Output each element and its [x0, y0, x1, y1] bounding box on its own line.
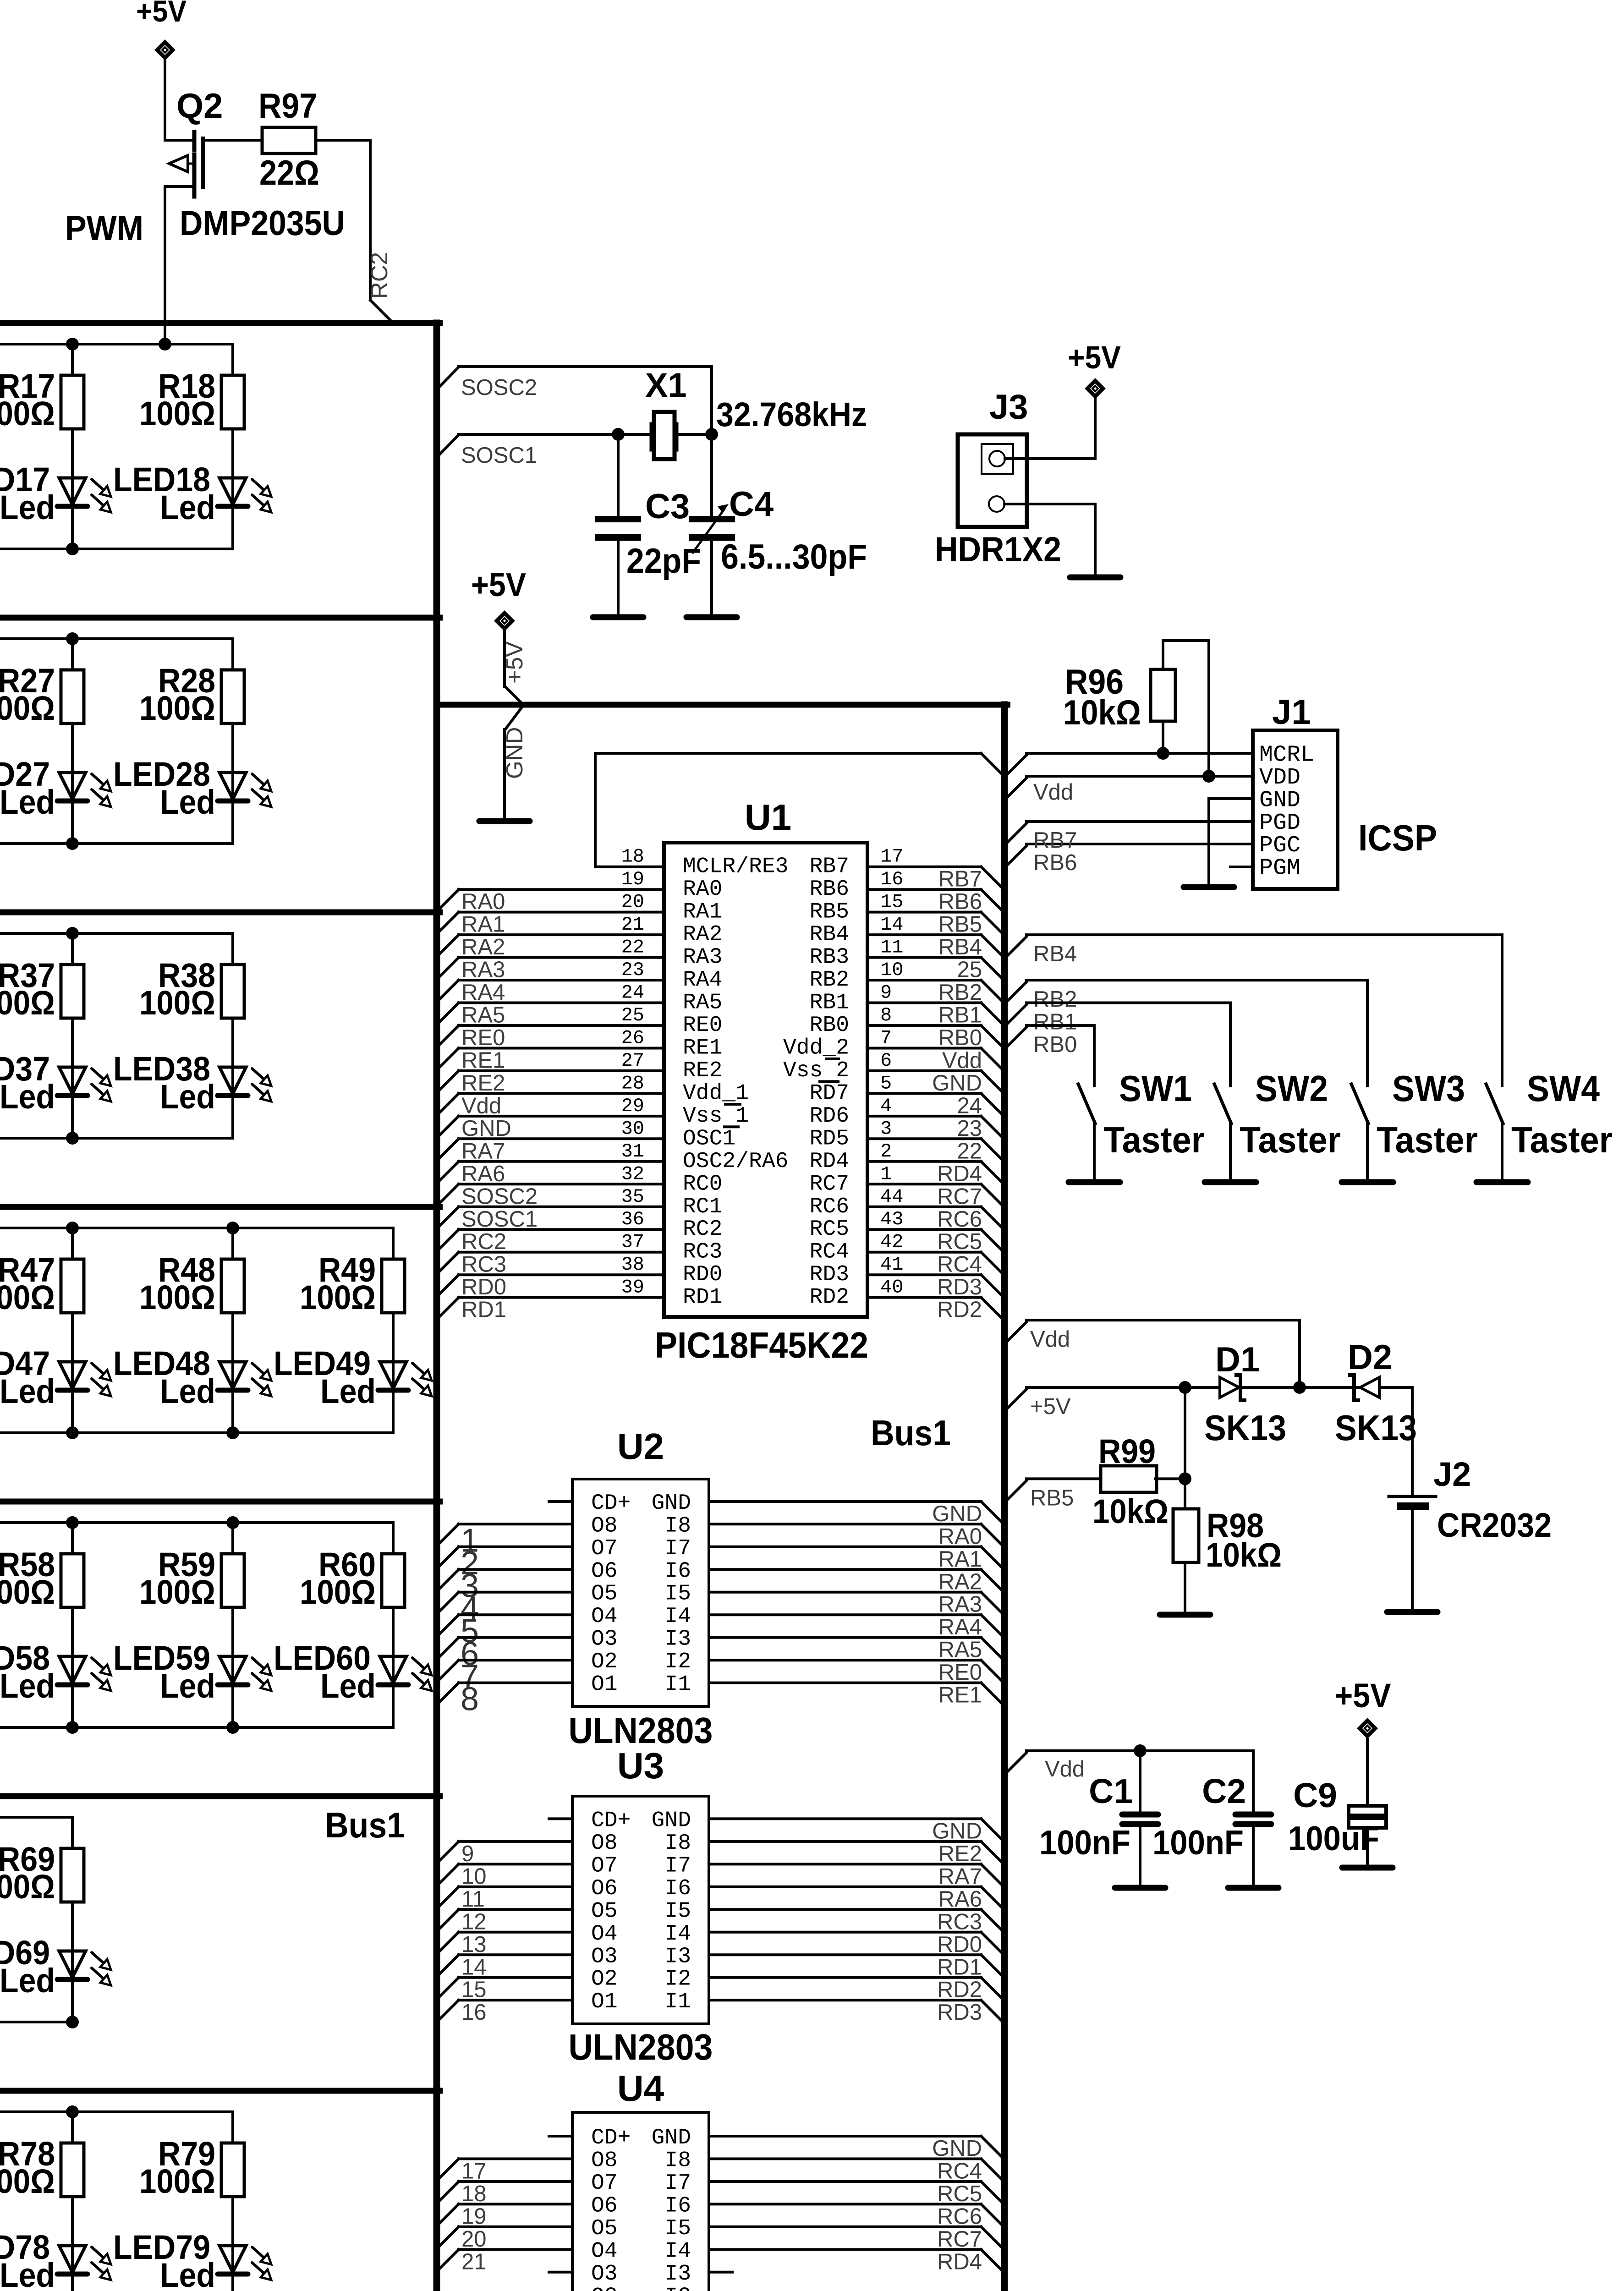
svg-text:RC7: RC7 [937, 1184, 982, 1209]
svg-text:Vss 2: Vss 2 [783, 1058, 849, 1083]
svg-text:GND: GND [461, 1116, 511, 1141]
svg-text:C4: C4 [729, 485, 774, 524]
svg-text:RC2: RC2 [366, 252, 392, 299]
svg-text:23: 23 [621, 959, 644, 981]
svg-text:20: 20 [461, 2227, 487, 2252]
svg-text:RB3: RB3 [810, 945, 849, 970]
svg-text:RE2: RE2 [461, 1071, 505, 1096]
svg-text:RC6: RC6 [937, 1207, 982, 1232]
svg-text:21: 21 [461, 2249, 487, 2274]
svg-text:GND: GND [501, 727, 527, 779]
svg-text:RA0: RA0 [683, 877, 722, 902]
svg-text:36: 36 [621, 1208, 644, 1230]
svg-text:9: 9 [880, 982, 892, 1004]
svg-text:+5V: +5V [471, 567, 526, 603]
svg-text:RB1: RB1 [1033, 1010, 1077, 1035]
svg-text:SW3: SW3 [1392, 1068, 1465, 1109]
svg-text:RC5: RC5 [937, 2181, 982, 2206]
svg-text:RB6: RB6 [810, 877, 849, 902]
svg-text:OSC1: OSC1 [683, 1126, 735, 1151]
svg-text:44: 44 [880, 1186, 903, 1208]
svg-text:I4: I4 [664, 1604, 691, 1629]
svg-text:RD2: RD2 [810, 1285, 849, 1310]
svg-text:4: 4 [880, 1095, 892, 1117]
svg-text:I2: I2 [664, 2284, 691, 2291]
svg-text:U2: U2 [617, 1426, 664, 1467]
svg-text:RD5: RD5 [810, 1126, 849, 1151]
svg-text:RD7: RD7 [810, 1081, 849, 1106]
svg-text:CR2032: CR2032 [1437, 1506, 1552, 1544]
svg-text:31: 31 [621, 1140, 644, 1162]
svg-text:I8: I8 [664, 1513, 691, 1538]
svg-text:RA5: RA5 [461, 1003, 505, 1028]
svg-text:GND: GND [932, 2136, 982, 2161]
svg-text:Led: Led [160, 1667, 215, 1705]
svg-text:100nF: 100nF [1039, 1823, 1130, 1862]
svg-text:RA2: RA2 [683, 922, 722, 947]
svg-text:100Ω: 100Ω [300, 1573, 376, 1611]
svg-text:R99: R99 [1098, 1432, 1156, 1470]
svg-text:RB2: RB2 [810, 968, 849, 992]
svg-text:11: 11 [461, 1887, 485, 1912]
svg-text:RE0: RE0 [461, 1025, 505, 1050]
svg-text:O6: O6 [591, 1876, 618, 1901]
svg-text:RB7: RB7 [938, 867, 982, 892]
svg-text:I2: I2 [664, 1967, 691, 1992]
svg-text:RC3: RC3 [937, 1909, 982, 1934]
svg-text:10kΩ: 10kΩ [1092, 1492, 1169, 1530]
svg-text:O4: O4 [591, 1922, 618, 1946]
svg-text:RA0: RA0 [938, 1524, 982, 1549]
svg-text:SW2: SW2 [1255, 1068, 1328, 1109]
svg-text:11: 11 [880, 937, 903, 959]
svg-text:DMP2035U: DMP2035U [180, 204, 345, 243]
svg-text:16: 16 [880, 868, 903, 890]
svg-text:C3: C3 [645, 487, 690, 526]
svg-text:22: 22 [621, 937, 644, 959]
svg-text:RA6: RA6 [938, 1887, 982, 1912]
svg-text:R97: R97 [258, 87, 317, 126]
svg-text:Led: Led [320, 1372, 376, 1410]
svg-text:RD1: RD1 [461, 1298, 506, 1322]
svg-text:Vdd: Vdd [1045, 1757, 1085, 1781]
svg-text:PWM: PWM [65, 209, 143, 248]
svg-text:7: 7 [880, 1027, 892, 1049]
svg-text:+5V: +5V [501, 641, 527, 684]
svg-text:Led: Led [160, 1078, 215, 1116]
svg-text:O7: O7 [591, 1853, 618, 1878]
svg-text:RA3: RA3 [461, 958, 505, 982]
svg-text:SW1: SW1 [1119, 1068, 1192, 1109]
svg-text:25: 25 [621, 1004, 644, 1026]
svg-text:Led: Led [160, 2256, 215, 2291]
svg-text:I3: I3 [664, 1627, 691, 1652]
svg-text:RB1: RB1 [938, 1003, 982, 1028]
svg-text:RA4: RA4 [683, 968, 722, 992]
svg-text:RA5: RA5 [938, 1638, 982, 1662]
svg-text:Vdd: Vdd [1033, 780, 1073, 805]
svg-text:RA1: RA1 [683, 900, 722, 925]
svg-text:Vdd: Vdd [942, 1048, 982, 1073]
svg-text:21: 21 [621, 914, 644, 936]
svg-text:100Ω: 100Ω [0, 2162, 55, 2200]
svg-text:RE1: RE1 [461, 1048, 505, 1073]
svg-text:O6: O6 [591, 2193, 618, 2218]
svg-text:ULN2803: ULN2803 [569, 2027, 713, 2067]
svg-text:23: 23 [957, 1116, 982, 1141]
svg-text:C9: C9 [1293, 1776, 1337, 1814]
svg-text:Led: Led [0, 1372, 55, 1410]
svg-text:D2: D2 [1348, 1338, 1392, 1377]
svg-text:100Ω: 100Ω [300, 1278, 376, 1316]
svg-text:19: 19 [621, 868, 644, 890]
svg-text:GND: GND [1259, 787, 1300, 813]
svg-text:RA0: RA0 [461, 889, 505, 914]
svg-text:O2: O2 [591, 2284, 618, 2291]
svg-text:I7: I7 [664, 1536, 691, 1561]
svg-text:O1: O1 [591, 1990, 618, 2014]
svg-text:J2: J2 [1433, 1455, 1471, 1493]
svg-text:I8: I8 [664, 2148, 691, 2173]
svg-text:RD1: RD1 [683, 1285, 722, 1310]
svg-text:SK13: SK13 [1204, 1408, 1286, 1448]
svg-text:I7: I7 [664, 2171, 691, 2196]
svg-text:RD3: RD3 [937, 1275, 982, 1299]
svg-text:VDD: VDD [1259, 765, 1300, 791]
svg-text:RA3: RA3 [938, 1592, 982, 1617]
svg-text:+5V: +5V [136, 0, 187, 28]
svg-text:Led: Led [320, 1667, 376, 1705]
svg-text:Vdd_1: Vdd_1 [683, 1081, 749, 1106]
svg-text:29: 29 [621, 1095, 644, 1117]
svg-text:SOSC2: SOSC2 [461, 1184, 538, 1209]
svg-text:RD0: RD0 [461, 1275, 506, 1299]
svg-text:10: 10 [880, 959, 903, 981]
svg-text:RC3: RC3 [461, 1252, 506, 1277]
svg-text:30: 30 [621, 1118, 644, 1140]
svg-text:I6: I6 [664, 1559, 691, 1584]
svg-text:+5V: +5V [1030, 1394, 1071, 1419]
svg-text:RB4: RB4 [810, 922, 849, 947]
svg-text:RB4: RB4 [1033, 942, 1077, 966]
svg-text:I7: I7 [664, 1853, 691, 1878]
svg-text:Led: Led [0, 2256, 55, 2291]
svg-text:I3: I3 [664, 2262, 691, 2286]
svg-text:Led: Led [0, 488, 55, 526]
svg-text:RC2: RC2 [461, 1229, 506, 1254]
svg-text:RA7: RA7 [461, 1139, 505, 1163]
svg-text:RB5: RB5 [1030, 1485, 1074, 1510]
svg-text:RB6: RB6 [1033, 850, 1077, 875]
svg-text:RC2: RC2 [683, 1217, 722, 1242]
svg-text:RB0: RB0 [1033, 1032, 1077, 1057]
svg-text:I2: I2 [664, 1650, 691, 1674]
svg-text:I4: I4 [664, 1922, 691, 1946]
svg-text:32: 32 [621, 1163, 644, 1185]
svg-text:Taster: Taster [1511, 1119, 1613, 1160]
svg-text:C1: C1 [1089, 1772, 1133, 1810]
svg-text:RB7: RB7 [1033, 828, 1077, 853]
svg-text:O8: O8 [591, 2148, 618, 2173]
svg-text:O8: O8 [591, 1831, 618, 1856]
svg-text:RB0: RB0 [810, 1013, 849, 1038]
svg-text:RD2: RD2 [937, 1978, 982, 2002]
svg-text:O6: O6 [591, 1559, 618, 1584]
svg-text:RD6: RD6 [810, 1104, 849, 1129]
svg-text:I5: I5 [664, 2216, 691, 2241]
svg-text:RA1: RA1 [938, 1547, 982, 1572]
svg-text:GND: GND [932, 1819, 982, 1843]
svg-text:RB1: RB1 [810, 991, 849, 1015]
svg-text:O1: O1 [591, 1672, 618, 1697]
svg-text:RD0: RD0 [937, 1932, 982, 1957]
svg-text:Vss 1: Vss 1 [683, 1104, 749, 1129]
svg-text:O8: O8 [591, 1513, 618, 1538]
svg-text:O7: O7 [591, 2171, 618, 2196]
svg-text:14: 14 [461, 1955, 487, 1979]
svg-text:RD4: RD4 [937, 1162, 982, 1186]
svg-text:RD1: RD1 [937, 1955, 982, 1979]
svg-text:18: 18 [461, 2181, 487, 2206]
svg-text:100Ω: 100Ω [0, 1868, 55, 1906]
svg-text:O5: O5 [591, 1899, 618, 1924]
svg-text:RC1: RC1 [683, 1195, 722, 1219]
svg-text:100Ω: 100Ω [139, 984, 215, 1022]
svg-text:10: 10 [461, 1864, 487, 1889]
svg-text:19: 19 [461, 2204, 487, 2229]
svg-text:Vdd_2: Vdd_2 [783, 1036, 849, 1061]
svg-text:RB2: RB2 [1033, 987, 1077, 1012]
svg-text:Taster: Taster [1377, 1119, 1478, 1160]
svg-text:Bus1: Bus1 [325, 1805, 405, 1845]
svg-text:Q2: Q2 [176, 87, 223, 126]
svg-text:PGM: PGM [1259, 855, 1300, 882]
svg-text:RA7: RA7 [938, 1864, 982, 1889]
svg-text:I4: I4 [664, 2239, 691, 2264]
svg-text:8: 8 [880, 1004, 892, 1026]
svg-text:Led: Led [0, 1078, 55, 1116]
svg-text:RE1: RE1 [683, 1036, 722, 1061]
svg-text:I5: I5 [664, 1899, 691, 1924]
svg-text:RD4: RD4 [937, 2249, 982, 2274]
svg-text:GND: GND [652, 2126, 691, 2150]
svg-text:O7: O7 [591, 1536, 618, 1561]
svg-text:RE2: RE2 [938, 1842, 982, 1866]
svg-text:ULN2803: ULN2803 [569, 1710, 713, 1751]
svg-text:SOSC1: SOSC1 [461, 443, 537, 468]
svg-text:100Ω: 100Ω [0, 395, 55, 433]
svg-text:I3: I3 [664, 1944, 691, 1969]
svg-text:Vdd: Vdd [1030, 1327, 1070, 1352]
svg-text:24: 24 [957, 1093, 982, 1118]
svg-text:13: 13 [461, 1932, 487, 1957]
svg-text:41: 41 [880, 1254, 903, 1276]
svg-text:RE0: RE0 [683, 1013, 722, 1038]
svg-text:U4: U4 [617, 2068, 664, 2109]
svg-text:Led: Led [160, 1372, 215, 1410]
svg-text:U1: U1 [745, 797, 791, 838]
svg-text:RC4: RC4 [937, 2159, 982, 2184]
svg-text:RA2: RA2 [461, 935, 505, 959]
svg-text:O2: O2 [591, 1650, 618, 1674]
svg-text:RE2: RE2 [683, 1058, 722, 1083]
svg-text:18: 18 [621, 846, 644, 868]
svg-text:2: 2 [880, 1140, 892, 1162]
svg-text:CD+: CD+ [591, 1808, 631, 1833]
svg-text:SW4: SW4 [1527, 1068, 1600, 1109]
svg-text:RB5: RB5 [810, 900, 849, 925]
svg-text:RB0: RB0 [938, 1025, 982, 1050]
svg-text:RA5: RA5 [683, 991, 722, 1015]
svg-text:10kΩ: 10kΩ [1063, 693, 1141, 732]
svg-text:Taster: Taster [1240, 1119, 1341, 1160]
svg-text:15: 15 [880, 891, 903, 913]
svg-text:SOSC1: SOSC1 [461, 1207, 538, 1232]
svg-text:12: 12 [461, 1909, 487, 1934]
svg-text:14: 14 [880, 914, 903, 936]
svg-text:I1: I1 [664, 1672, 691, 1697]
svg-text:SK13: SK13 [1335, 1408, 1417, 1448]
svg-text:26: 26 [621, 1027, 644, 1049]
svg-text:U3: U3 [617, 1745, 664, 1786]
svg-text:RC6: RC6 [810, 1195, 849, 1219]
svg-text:9: 9 [461, 1842, 474, 1866]
svg-text:3: 3 [880, 1118, 892, 1140]
svg-text:100uF: 100uF [1288, 1819, 1379, 1858]
svg-text:39: 39 [621, 1277, 644, 1299]
svg-text:PIC18F45K22: PIC18F45K22 [655, 1325, 868, 1365]
svg-text:22pF: 22pF [626, 542, 701, 581]
svg-text:Taster: Taster [1103, 1119, 1205, 1160]
svg-text:15: 15 [461, 1978, 487, 2002]
svg-text:SOSC2: SOSC2 [461, 375, 537, 400]
svg-text:Led: Led [160, 488, 215, 526]
svg-text:24: 24 [621, 982, 644, 1004]
svg-text:RC7: RC7 [810, 1172, 849, 1196]
svg-text:20: 20 [621, 891, 644, 913]
svg-text:C2: C2 [1202, 1772, 1246, 1810]
svg-text:Led: Led [0, 1667, 55, 1705]
svg-text:RE0: RE0 [938, 1660, 982, 1685]
svg-text:O5: O5 [591, 2216, 618, 2241]
svg-text:Led: Led [160, 783, 215, 821]
svg-text:RB6: RB6 [938, 889, 982, 914]
svg-text:RC3: RC3 [683, 1240, 722, 1265]
svg-text:17: 17 [461, 2159, 487, 2184]
svg-text:RC5: RC5 [810, 1217, 849, 1242]
svg-text:RB7: RB7 [810, 855, 849, 879]
svg-text:HDR1X2: HDR1X2 [935, 530, 1061, 569]
svg-text:RD2: RD2 [937, 1298, 982, 1322]
svg-text:40: 40 [880, 1277, 903, 1299]
svg-text:6: 6 [880, 1050, 892, 1072]
svg-text:RD4: RD4 [810, 1149, 849, 1174]
svg-text:35: 35 [621, 1186, 644, 1208]
svg-text:+5V: +5V [1335, 1677, 1391, 1715]
svg-text:100Ω: 100Ω [139, 1278, 215, 1316]
svg-text:1: 1 [880, 1163, 892, 1185]
svg-text:O3: O3 [591, 1944, 618, 1969]
svg-text:8: 8 [461, 1681, 479, 1718]
svg-text:100Ω: 100Ω [139, 1573, 215, 1611]
svg-text:100Ω: 100Ω [0, 689, 55, 727]
svg-text:ICSP: ICSP [1358, 817, 1437, 858]
svg-text:RB2: RB2 [938, 980, 982, 1005]
svg-text:O3: O3 [591, 2262, 618, 2286]
svg-text:RC7: RC7 [937, 2227, 982, 2252]
svg-text:Vdd: Vdd [461, 1093, 501, 1118]
svg-text:RA3: RA3 [683, 945, 722, 970]
svg-text:RA4: RA4 [461, 980, 505, 1005]
svg-text:RD0: RD0 [683, 1262, 722, 1287]
svg-text:OSC2/RA6: OSC2/RA6 [683, 1149, 788, 1174]
svg-text:100Ω: 100Ω [139, 395, 215, 433]
svg-text:RE1: RE1 [938, 1683, 982, 1708]
svg-text:I5: I5 [664, 1582, 691, 1606]
svg-text:Bus1: Bus1 [871, 1413, 951, 1453]
svg-text:10kΩ: 10kΩ [1206, 1536, 1282, 1574]
svg-text:CD+: CD+ [591, 1491, 631, 1516]
svg-text:100Ω: 100Ω [0, 1573, 55, 1611]
svg-text:RC4: RC4 [810, 1240, 849, 1265]
svg-text:RB5: RB5 [938, 912, 982, 937]
svg-text:100Ω: 100Ω [139, 689, 215, 727]
svg-text:100Ω: 100Ω [0, 984, 55, 1022]
svg-text:RA4: RA4 [938, 1615, 982, 1639]
svg-text:17: 17 [880, 846, 903, 868]
svg-text:28: 28 [621, 1072, 644, 1094]
svg-text:6.5...30pF: 6.5...30pF [721, 537, 867, 576]
svg-text:RD3: RD3 [937, 2000, 982, 2025]
svg-text:O4: O4 [591, 2239, 618, 2264]
svg-text:RC4: RC4 [937, 1252, 982, 1277]
svg-text:16: 16 [461, 2000, 487, 2025]
svg-text:RC5: RC5 [937, 1229, 982, 1254]
svg-text:27: 27 [621, 1050, 644, 1072]
svg-text:100Ω: 100Ω [0, 1278, 55, 1316]
svg-text:5: 5 [880, 1072, 892, 1094]
svg-text:I6: I6 [664, 1876, 691, 1901]
svg-text:I8: I8 [664, 1831, 691, 1856]
svg-text:Led: Led [0, 783, 55, 821]
svg-text:GND: GND [652, 1808, 691, 1833]
svg-text:100nF: 100nF [1152, 1823, 1244, 1862]
svg-text:O3: O3 [591, 1627, 618, 1652]
svg-text:I1: I1 [664, 1990, 691, 2014]
svg-text:RA6: RA6 [461, 1162, 505, 1186]
svg-text:RA2: RA2 [938, 1569, 982, 1594]
svg-text:D1: D1 [1215, 1340, 1260, 1379]
svg-text:PGC: PGC [1259, 833, 1300, 859]
svg-text:RA1: RA1 [461, 912, 505, 937]
svg-text:32.768kHz: 32.768kHz [716, 395, 867, 433]
svg-text:J3: J3 [989, 388, 1028, 427]
svg-text:100Ω: 100Ω [139, 2162, 215, 2200]
svg-text:22: 22 [957, 1139, 982, 1163]
svg-text:38: 38 [621, 1254, 644, 1276]
svg-text:RD3: RD3 [810, 1262, 849, 1287]
svg-text:CD+: CD+ [591, 2126, 631, 2150]
svg-text:+5V: +5V [1068, 340, 1121, 375]
svg-text:RC6: RC6 [937, 2204, 982, 2229]
svg-text:O4: O4 [591, 1604, 618, 1629]
svg-text:Led: Led [0, 1962, 55, 2000]
svg-text:GND: GND [932, 1071, 982, 1096]
svg-text:RC0: RC0 [683, 1172, 722, 1196]
svg-text:J1: J1 [1272, 693, 1311, 732]
svg-text:GND: GND [652, 1491, 691, 1516]
svg-text:O5: O5 [591, 1582, 618, 1606]
